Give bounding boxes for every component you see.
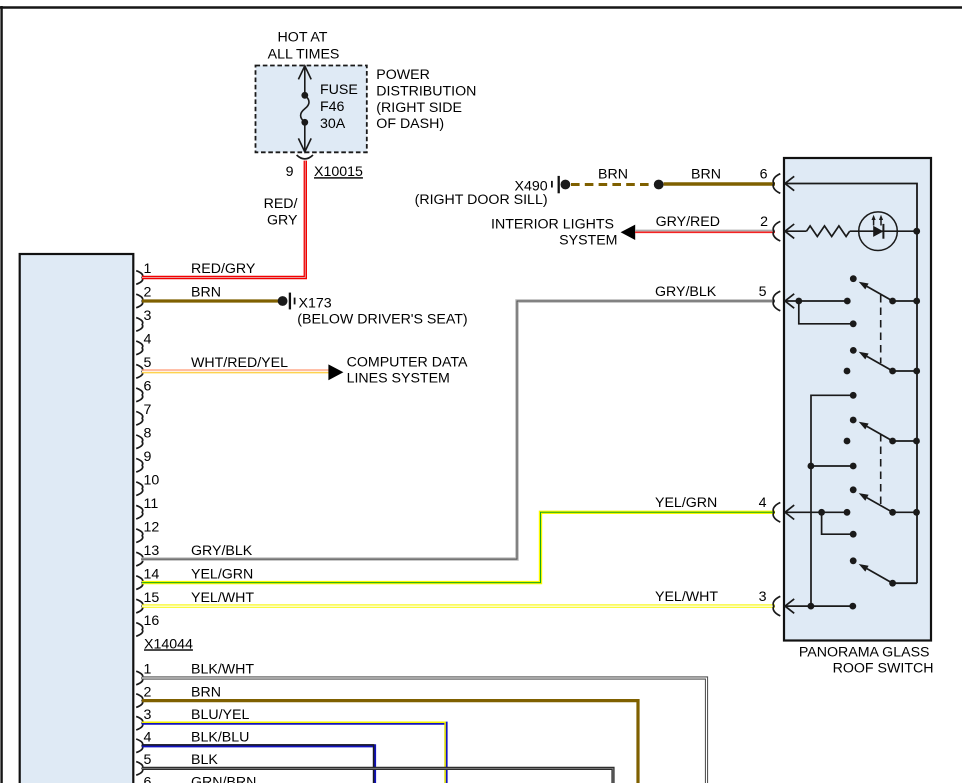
pin 11 of X14044 — [136, 505, 143, 519]
svg-text:HOT AT: HOT AT — [278, 30, 328, 46]
wire BRN pin2 to X173 — [142, 299, 281, 302]
rail branch middle — [811, 465, 853, 467]
switch S4 pivot to bus — [893, 511, 917, 513]
svg-text:YEL/GRN: YEL/GRN — [655, 495, 717, 511]
svg-text:OF DASH): OF DASH) — [376, 116, 444, 132]
gang link S1-S2 dashed — [880, 295, 882, 363]
svg-text:YEL/WHT: YEL/WHT — [655, 589, 718, 605]
switch S2 pivot to bus — [893, 370, 917, 372]
branch pin5 to lower contact — [799, 301, 853, 324]
svg-text:PANORAMA GLASS: PANORAMA GLASS — [799, 645, 930, 661]
svg-text:13: 13 — [144, 543, 160, 559]
svg-text:POWER: POWER — [376, 67, 430, 83]
page border left — [0, 6, 2, 783]
pin 1 of X14044 — [136, 271, 143, 285]
pin 15 of X14044 — [136, 599, 143, 613]
switch pin 3 receptacle — [773, 596, 780, 616]
connector block X14044 — [20, 254, 134, 783]
svg-text:FUSE: FUSE — [320, 82, 358, 98]
svg-text:1: 1 — [144, 662, 152, 678]
switch S3 upper contact — [850, 417, 857, 424]
page border top — [0, 6, 962, 9]
svg-text:(RIGHT SIDE: (RIGHT SIDE — [376, 100, 462, 116]
svg-text:YEL/GRN: YEL/GRN — [191, 566, 253, 582]
gang link S3-S4 dashed — [880, 434, 882, 504]
svg-text:5: 5 — [759, 284, 767, 300]
svg-text:X173: X173 — [299, 296, 332, 312]
svg-text:BLK/BLU: BLK/BLU — [191, 730, 249, 746]
svg-text:(BELOW DRIVER'S SEAT): (BELOW DRIVER'S SEAT) — [297, 312, 467, 328]
svg-text:YEL/WHT: YEL/WHT — [191, 590, 254, 606]
svg-text:BRN: BRN — [691, 166, 721, 182]
svg-text:4: 4 — [144, 730, 152, 746]
svg-text:DISTRIBUTION: DISTRIBUTION — [376, 83, 476, 99]
wire BLK/BLU lower pin4 — [142, 746, 375, 783]
svg-text:WHT/RED/YEL: WHT/RED/YEL — [191, 355, 288, 371]
svg-text:F46: F46 — [320, 99, 345, 115]
switch S2 arm — [867, 356, 893, 371]
pin 13 of X14044 — [136, 552, 143, 566]
svg-text:3: 3 — [144, 707, 152, 723]
switch S5 arm — [867, 569, 893, 584]
svg-text:2: 2 — [144, 684, 152, 700]
switch S3 pivot to bus — [893, 440, 917, 442]
switch S4 upper contact — [850, 486, 857, 493]
svg-text:6: 6 — [144, 379, 152, 395]
wire pin4 internal — [785, 511, 847, 513]
svg-text:INTERIOR LIGHTS: INTERIOR LIGHTS — [491, 216, 614, 232]
switch S3 arm — [867, 426, 893, 441]
fuse F46 30A symbol — [304, 66, 306, 96]
svg-text:5: 5 — [144, 752, 152, 768]
arrow to interior lights system — [621, 225, 636, 240]
svg-text:9: 9 — [286, 164, 294, 180]
switch pin 4 receptacle — [773, 503, 780, 523]
svg-text:X10015: X10015 — [314, 164, 363, 180]
svg-text:12: 12 — [144, 519, 160, 535]
svg-text:4: 4 — [759, 495, 767, 511]
svg-text:10: 10 — [144, 472, 160, 488]
svg-text:4: 4 — [144, 332, 152, 348]
connector X10015 receptacle arc — [297, 155, 313, 159]
svg-text:30A: 30A — [320, 116, 346, 132]
svg-text:SYSTEM: SYSTEM — [559, 232, 617, 248]
switch S1 upper contact — [850, 275, 857, 282]
branch pin4 to lower contact — [822, 512, 854, 534]
svg-text:BLK/WHT: BLK/WHT — [191, 662, 254, 678]
pin 2 of lower connector — [136, 694, 143, 708]
switch S2 open contact — [844, 368, 851, 375]
svg-text:6: 6 — [760, 166, 768, 182]
svg-text:2: 2 — [760, 214, 768, 230]
switch S3 open contact — [844, 438, 851, 445]
pin 16 of X14044 — [136, 623, 143, 637]
svg-text:14: 14 — [144, 566, 160, 582]
pin 12 of X14044 — [136, 529, 143, 543]
switch pin 2 receptacle — [773, 221, 780, 241]
pin 7 of X14044 — [136, 412, 143, 426]
resistor — [807, 226, 850, 237]
wire BLU/YEL lower pin3 — [142, 723, 446, 783]
pin 2 of X14044 — [136, 294, 143, 308]
switch S1 arm — [867, 286, 893, 301]
svg-text:ALL TIMES: ALL TIMES — [268, 46, 340, 62]
svg-text:RED/: RED/ — [264, 196, 298, 212]
switch S5 pivot to bus corner — [893, 582, 917, 584]
wire RED/GRY pin1 to fuse X10015 — [142, 161, 305, 278]
svg-text:X14044: X14044 — [144, 636, 193, 652]
pin 9 of X14044 — [136, 459, 143, 473]
pin 6 of X14044 — [136, 388, 143, 402]
wire BRN dashed X490 to splice — [571, 183, 653, 186]
pin 3 of lower connector — [136, 716, 143, 730]
wire pin2 to resistor — [785, 230, 807, 232]
svg-text:GRY/BLK: GRY/BLK — [191, 543, 253, 559]
svg-text:BRN: BRN — [191, 684, 221, 700]
pin 5 of lower connector — [136, 762, 143, 776]
switch pin 6 receptacle — [773, 174, 780, 194]
switch pin 5 receptacle — [773, 291, 780, 311]
pin 4 of X14044 — [136, 341, 143, 355]
svg-text:5: 5 — [144, 355, 152, 371]
switch S5 upper contact — [850, 557, 857, 564]
pin 14 of X14044 — [136, 576, 143, 590]
junction LED to bus — [913, 228, 920, 235]
svg-text:6: 6 — [144, 775, 152, 783]
wire BRN lower pin2 — [142, 701, 638, 783]
wire BRN splice to switch pin6 — [664, 182, 775, 185]
pin 5 of X14044 — [136, 365, 143, 379]
svg-text:2: 2 — [144, 285, 152, 301]
svg-text:LINES SYSTEM: LINES SYSTEM — [347, 371, 450, 387]
svg-text:16: 16 — [144, 613, 160, 629]
svg-text:GRY/BLK: GRY/BLK — [655, 284, 717, 300]
svg-text:COMPUTER DATA: COMPUTER DATA — [347, 354, 468, 370]
svg-text:1: 1 — [144, 261, 152, 277]
left rail with contacts — [811, 395, 853, 606]
pin 4 of lower connector — [136, 739, 143, 753]
power distribution fuse box — [256, 66, 367, 153]
svg-text:BRN: BRN — [191, 285, 221, 301]
svg-text:RED/GRY: RED/GRY — [191, 261, 256, 277]
splice dot — [654, 180, 664, 190]
wire YEL/GRN pin14 to switch pin4 — [142, 512, 775, 582]
svg-text:15: 15 — [144, 590, 160, 606]
switch S2 upper contact — [850, 347, 857, 354]
wire BLK lower pin5 — [142, 768, 613, 783]
svg-text:BLU/YEL: BLU/YEL — [191, 707, 249, 723]
svg-text:3: 3 — [144, 308, 152, 324]
connector X173 — [278, 296, 288, 306]
switch S4 arm — [867, 498, 893, 513]
LED indicator — [859, 212, 898, 251]
pin 10 of X14044 — [136, 482, 143, 496]
svg-text:GRY/RED: GRY/RED — [656, 214, 720, 230]
pin 1 of lower connector — [136, 671, 143, 685]
svg-text:BRN: BRN — [598, 166, 628, 182]
pin 8 of X14044 — [136, 435, 143, 449]
wire resistor to LED — [850, 230, 917, 232]
switch S1 pivot to bus — [893, 300, 917, 302]
svg-text:ROOF SWITCH: ROOF SWITCH — [833, 661, 934, 677]
svg-text:GRN/BRN: GRN/BRN — [191, 775, 256, 783]
wire GRY/RED to switch pin2 — [635, 230, 775, 232]
svg-text:11: 11 — [144, 496, 159, 512]
wire YEL/WHT pin15 to switch pin3 — [142, 604, 775, 607]
wire BLK/WHT lower pin1 — [142, 678, 707, 783]
wire pin5 internal — [785, 300, 847, 302]
wire WHT/RED/YEL pin5 to computer data lines — [142, 369, 329, 371]
wire pin6 to internal bus — [785, 184, 917, 584]
svg-text:9: 9 — [144, 449, 152, 465]
pin 3 of X14044 — [136, 318, 143, 332]
arrow to COMPUTER DATA LINES SYSTEM — [328, 364, 343, 380]
svg-text:GRY: GRY — [267, 213, 298, 229]
svg-text:8: 8 — [144, 426, 152, 442]
svg-text:7: 7 — [144, 402, 152, 418]
svg-text:(RIGHT DOOR SILL): (RIGHT DOOR SILL) — [415, 192, 548, 208]
wire pin3 internal — [785, 605, 853, 607]
svg-text:3: 3 — [759, 589, 767, 605]
panorama glass roof switch box — [784, 158, 931, 641]
wire GRY/BLK pin13 to switch pin5 — [142, 301, 775, 559]
svg-text:BLK: BLK — [191, 752, 218, 768]
